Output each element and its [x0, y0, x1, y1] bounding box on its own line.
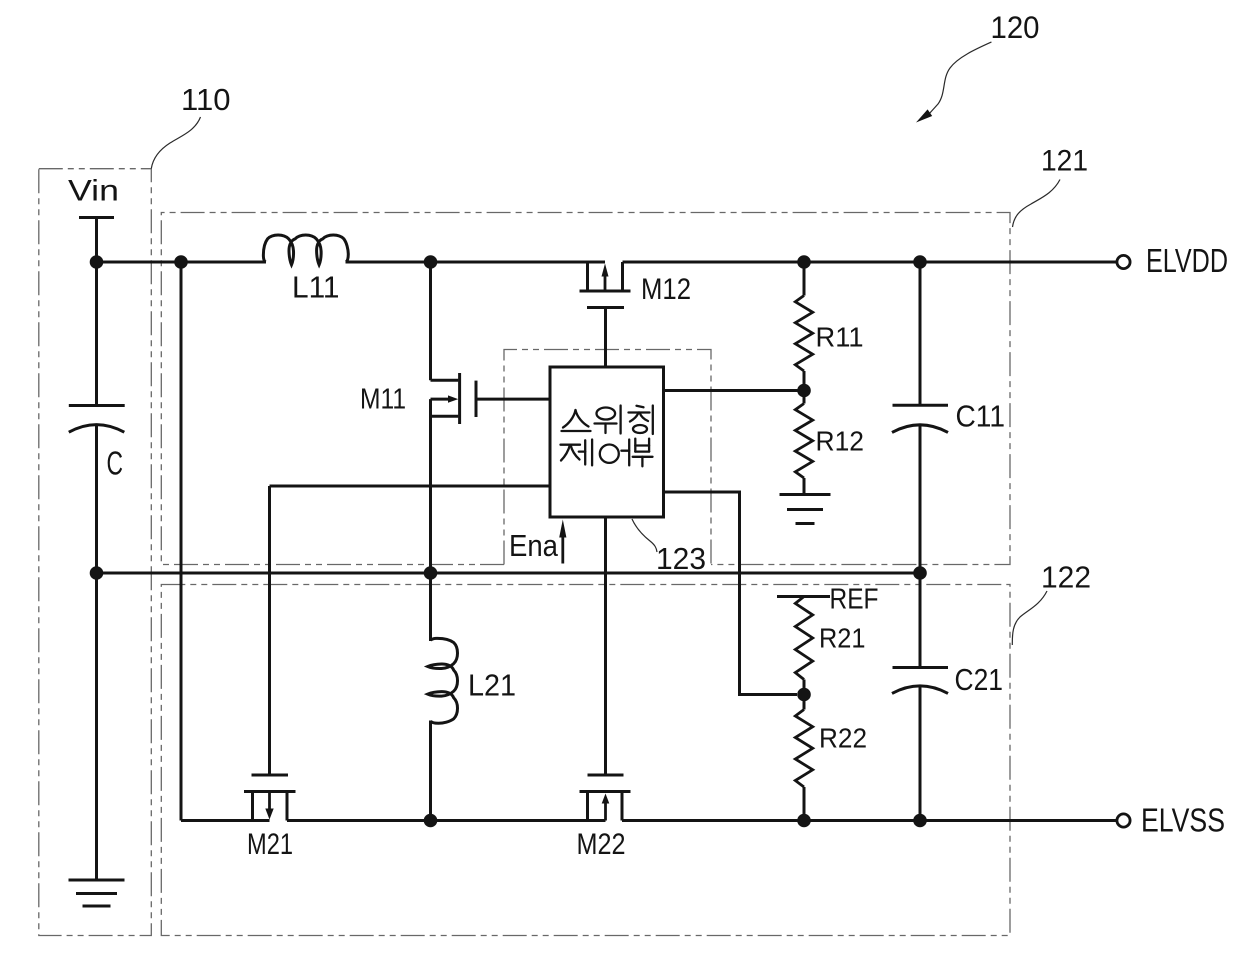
inductor L11	[263, 235, 348, 265]
wire C bottom to ground	[95, 425, 98, 881]
svg-text:R11: R11	[816, 322, 864, 353]
leader line for 123	[632, 519, 657, 552]
ELVSS terminal	[1117, 814, 1130, 827]
svg-text:120: 120	[991, 9, 1040, 45]
wire ELVSS rail left segment	[181, 819, 270, 822]
leader line for 122	[1012, 591, 1047, 645]
node REF terminal bar	[777, 595, 830, 598]
wire from input node down to ELVSS rail	[180, 262, 183, 821]
node junction dot 1	[90, 255, 104, 269]
ground under C	[69, 880, 125, 906]
node junction dot 4	[797, 255, 811, 269]
node junction dot 8	[913, 566, 927, 580]
wire M21 gate stem	[268, 486, 271, 775]
wire controller to R21/R22 node	[664, 492, 798, 695]
wire top rail middle segment	[346, 261, 606, 264]
wire M22 gate stem	[604, 517, 607, 775]
ground under R12	[780, 495, 831, 524]
wire top rail to C11	[919, 262, 922, 405]
resistor R22	[795, 695, 812, 821]
wire top rail right segment	[623, 261, 1117, 264]
svg-text:C: C	[107, 445, 124, 482]
svg-text:122: 122	[1041, 561, 1091, 595]
svg-text:C21: C21	[955, 662, 1004, 697]
svg-text:Vin: Vin	[68, 175, 119, 208]
svg-text:REF: REF	[830, 584, 879, 616]
node junction dot 5	[913, 255, 927, 269]
leader arrow for 120	[916, 42, 992, 123]
node junction dot 11	[424, 814, 438, 828]
inductor L21	[429, 573, 432, 641]
node junction dot 10	[797, 688, 811, 702]
wire controller to M21 gate	[270, 485, 551, 488]
resistor R11	[795, 262, 812, 391]
svg-text:ELVDD: ELVDD	[1146, 243, 1228, 280]
leader line for 121	[1013, 180, 1061, 228]
svg-text:110: 110	[181, 82, 231, 117]
svg-text:R21: R21	[819, 623, 866, 654]
converter box 121	[161, 213, 1010, 565]
node junction dot 7	[424, 566, 438, 580]
wire C11 to mid rail	[919, 424, 922, 573]
transistor M22	[580, 775, 631, 821]
svg-text:123: 123	[656, 542, 706, 576]
resistor R12	[795, 391, 812, 495]
input-filter box 110	[39, 169, 152, 936]
controller box 123	[504, 350, 711, 565]
resistor R21	[795, 597, 812, 695]
svg-text:M11: M11	[360, 384, 406, 416]
svg-text:Ena: Ena	[509, 529, 558, 563]
svg-text:L11: L11	[292, 271, 340, 305]
wire mid rail to C21	[919, 573, 922, 668]
op-amp/controller block: switching control unit	[550, 367, 664, 517]
wire controller to R11/R12 node	[664, 389, 805, 392]
ELVDD terminal	[1117, 255, 1130, 268]
wire ELVSS rail middle segment	[287, 819, 606, 822]
controller text line1 (Korean: switching)	[562, 406, 653, 435]
capacitor C21	[892, 668, 948, 694]
capacitor C	[69, 406, 125, 433]
svg-text:M21: M21	[247, 828, 293, 861]
svg-text:ELVSS: ELVSS	[1141, 803, 1225, 840]
wire top rail left segment	[97, 261, 267, 264]
wire M12 gate stem	[604, 308, 607, 368]
wire M11 gate to controller	[476, 398, 550, 401]
node junction dot 13	[913, 814, 927, 828]
capacitor C11	[892, 405, 948, 432]
node junction dot 9	[797, 384, 811, 398]
node junction dot 6	[90, 566, 104, 580]
Vin terminal bar	[79, 216, 114, 219]
node junction dot 2	[174, 255, 188, 269]
wire C21 to ELVSS rail	[919, 686, 922, 821]
svg-text:M22: M22	[577, 828, 626, 861]
node junction dot 3	[424, 255, 438, 269]
transistor M11	[431, 262, 477, 573]
svg-text:121: 121	[1041, 145, 1088, 178]
svg-text:R12: R12	[816, 426, 865, 457]
wire mid rail	[97, 572, 921, 575]
svg-text:M12: M12	[641, 273, 691, 306]
wire Vin stem	[95, 218, 98, 263]
svg-text:R22: R22	[819, 723, 867, 754]
wire Vin node down to capacitor C	[95, 262, 98, 406]
transistor M21	[244, 775, 296, 821]
transistor M12	[580, 262, 631, 308]
svg-text:C11: C11	[956, 399, 1006, 434]
leader line for 110	[151, 117, 200, 169]
wire ELVSS rail right segment	[622, 819, 1117, 822]
converter box 122	[161, 585, 1010, 936]
controller text line2 (Korean: control unit)	[561, 439, 653, 467]
Ena arrow	[559, 520, 566, 564]
svg-text:L21: L21	[468, 669, 516, 703]
node junction dot 12	[797, 814, 811, 828]
